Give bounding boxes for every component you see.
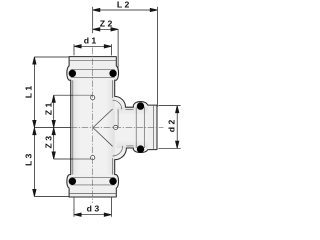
tee fitting outline xyxy=(67,57,157,197)
branch bead face lines xyxy=(136,107,144,148)
O-ring sections, top socket xyxy=(69,70,117,77)
top socket bead face lines xyxy=(71,69,115,77)
svg-text:Z 2: Z 2 xyxy=(100,18,113,28)
dimension d1 xyxy=(74,44,111,55)
branch centerline xyxy=(71,127,164,129)
branch run shading xyxy=(117,107,148,148)
dimension Z1 xyxy=(52,95,73,127)
svg-text:Z 3: Z 3 xyxy=(43,136,53,149)
vertical centerline xyxy=(92,48,94,204)
svg-text:d 1: d 1 xyxy=(84,36,97,46)
dimension d3 xyxy=(74,198,111,217)
body wall inner lines xyxy=(73,80,113,174)
O-ring sections, bottom socket xyxy=(69,178,117,185)
dimension Z2 xyxy=(93,28,118,71)
indicator circle bottom xyxy=(91,156,95,160)
svg-text:d 2: d 2 xyxy=(166,119,176,132)
O-ring sections, branch socket xyxy=(137,102,144,152)
svg-text:L 3: L 3 xyxy=(23,153,33,166)
bottom socket rim inner line xyxy=(69,193,116,195)
bottom socket stop line xyxy=(73,158,93,160)
indicator circle top xyxy=(91,96,95,100)
transition diagonals xyxy=(93,109,113,146)
dimension Z3 xyxy=(52,128,73,159)
branch socket stop line xyxy=(117,109,119,127)
inner fillet top corner xyxy=(113,100,122,109)
tee fitting body fill xyxy=(67,57,157,197)
svg-text:L 2: L 2 xyxy=(117,0,130,9)
top socket stop line xyxy=(73,94,93,96)
branch wall inner lines xyxy=(126,109,134,145)
top socket rim inner line xyxy=(69,59,116,61)
inner fillet bottom corner xyxy=(113,146,123,156)
bottom socket bead face lines xyxy=(71,178,115,185)
dimension d2 xyxy=(158,106,180,149)
vertical run shading xyxy=(71,80,115,174)
svg-text:Z 1: Z 1 xyxy=(43,102,53,115)
indicator circle branch xyxy=(114,125,118,129)
svg-text:L 1: L 1 xyxy=(23,86,33,99)
branch rim inner line xyxy=(152,105,154,150)
dimension L3 xyxy=(33,128,69,197)
svg-text:d 3: d 3 xyxy=(87,203,100,213)
dimension L2 xyxy=(93,7,158,107)
dimension L1 xyxy=(33,57,71,128)
